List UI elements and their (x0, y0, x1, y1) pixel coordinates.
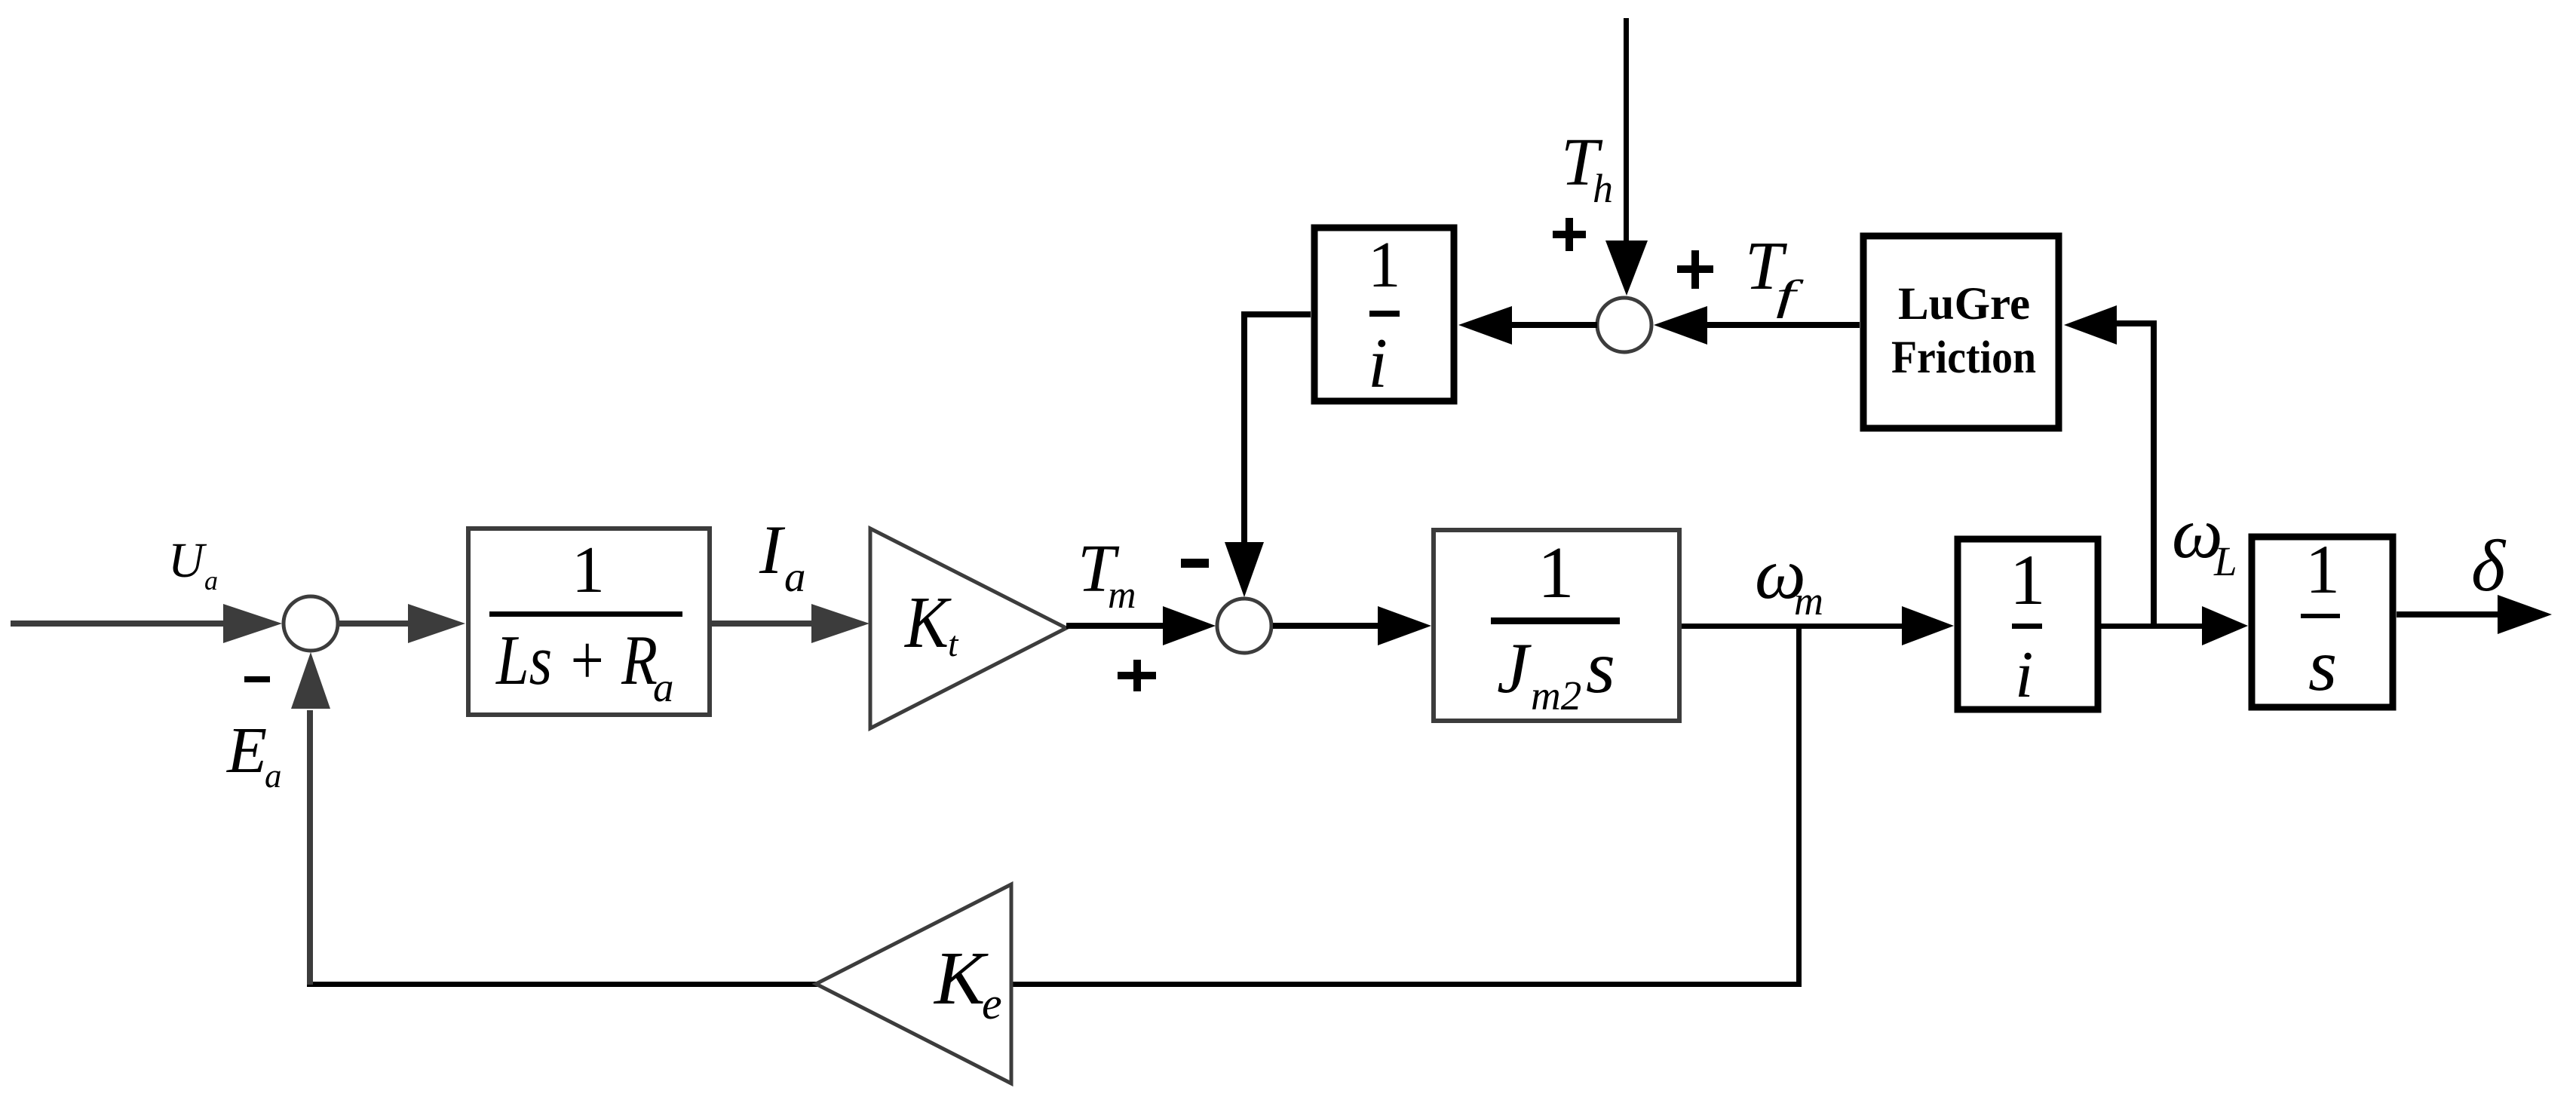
svg-text:K: K (933, 936, 989, 1020)
minus sign at S2 top (1181, 559, 1209, 568)
wire G2 to G3 (1682, 624, 1908, 629)
summing junction S3 (1597, 298, 1651, 352)
svg-text:m2: m2 (1531, 673, 1581, 719)
plus sign at S3 left (1553, 218, 1586, 251)
svg-text:m: m (1794, 578, 1823, 624)
output arrowhead (2498, 595, 2552, 634)
svg-text:a: a (784, 553, 806, 601)
summing junction S2 (1217, 599, 1271, 653)
svg-text:K: K (903, 582, 952, 663)
feedback wire bottom horizontal (307, 982, 1802, 987)
svg-text:i: i (1368, 324, 1388, 403)
svg-text:L: L (2213, 538, 2237, 584)
arrowhead into G3 (1902, 606, 1954, 645)
arrowhead into G4 (2202, 606, 2248, 645)
svg-text:1: 1 (572, 534, 605, 607)
minus sign at S1 (244, 676, 270, 682)
wire branch down from omega_m node (1796, 629, 1802, 987)
plus sign at S3 right (1677, 250, 1713, 289)
arrowhead down into S2 (1225, 542, 1264, 597)
svg-text:I: I (759, 511, 786, 588)
block G3 1/i (1958, 539, 2098, 712)
svg-text:m: m (1108, 574, 1136, 617)
gain Ke triangle (816, 884, 1011, 1083)
node label Ia (759, 511, 806, 601)
LuGre Friction block (1863, 236, 2059, 428)
svg-text:1: 1 (2010, 540, 2046, 620)
svg-text:i: i (2015, 639, 2033, 712)
wire Th input from top (1624, 18, 1629, 245)
wire from top 1/i block down to S2 (1241, 311, 1311, 545)
arrowhead into G1 (408, 604, 465, 643)
wire G1 to Kt (712, 621, 822, 627)
svg-text:J: J (1497, 628, 1532, 708)
wire S3 to top 1/i block (1512, 322, 1597, 328)
node label Ua (168, 533, 218, 596)
svg-text:s: s (1586, 625, 1615, 709)
node label Tf (1745, 228, 1805, 319)
summing junction S1 (284, 596, 338, 651)
node label omega_L (2172, 492, 2237, 584)
svg-text:Friction: Friction (1891, 332, 2036, 383)
svg-text:h: h (1593, 166, 1613, 211)
block G5 top 1/i (1314, 228, 1454, 403)
wire input Ua (11, 621, 229, 627)
svg-text:U: U (168, 533, 207, 588)
arrowhead into Kt (811, 604, 869, 643)
arrowhead up into S1 bottom (291, 652, 330, 709)
output wire (2397, 611, 2504, 617)
svg-text:a: a (653, 664, 674, 710)
svg-text:1: 1 (2305, 531, 2340, 608)
svg-text:a: a (265, 757, 282, 795)
wire Kt to S2 (1066, 623, 1176, 629)
arrowhead Th into S3 (1605, 241, 1648, 296)
svg-text:E: E (225, 713, 267, 786)
feedback wire vertical up to S1 (307, 710, 313, 985)
arrowhead into S2 (1163, 606, 1216, 645)
wire S1 to G1 (339, 621, 422, 627)
arrowhead into G2 (1378, 606, 1431, 645)
svg-text:LuGre: LuGre (1898, 279, 2030, 329)
arrowhead into S3 from right (1654, 306, 1707, 345)
svg-text:Ls + R: Ls + R (495, 621, 658, 700)
arrowhead into top 1/i block (1458, 306, 1512, 345)
arrowhead into LuGre right side (2064, 305, 2117, 345)
node label Th (1561, 125, 1613, 211)
svg-text:e: e (982, 979, 1002, 1028)
svg-text:a: a (204, 565, 218, 596)
block G2 1/(Jm2 s) (1434, 530, 1679, 721)
plus sign at S2 (1118, 660, 1156, 691)
wire tap from omega_L line up to LuGre (2117, 320, 2157, 626)
node label omega_m (1755, 533, 1823, 624)
svg-text:s: s (2308, 625, 2337, 706)
block G4 1/s (2252, 531, 2393, 707)
gain Kt triangle (870, 529, 1066, 728)
svg-text:δ: δ (2471, 526, 2507, 606)
wire S2 to G2 (1273, 623, 1388, 629)
svg-text:1: 1 (1538, 532, 1575, 613)
wire LuGre to S3 (1707, 322, 1860, 328)
node label Tm (1078, 532, 1136, 617)
node label Ea (225, 713, 282, 795)
wire G3 to G4 (2101, 624, 2210, 629)
svg-text:t: t (948, 624, 959, 664)
svg-text:1: 1 (1368, 228, 1401, 301)
block G1 1/(Ls+Ra) (468, 529, 710, 715)
arrowhead into summing junction S1 (223, 604, 282, 643)
